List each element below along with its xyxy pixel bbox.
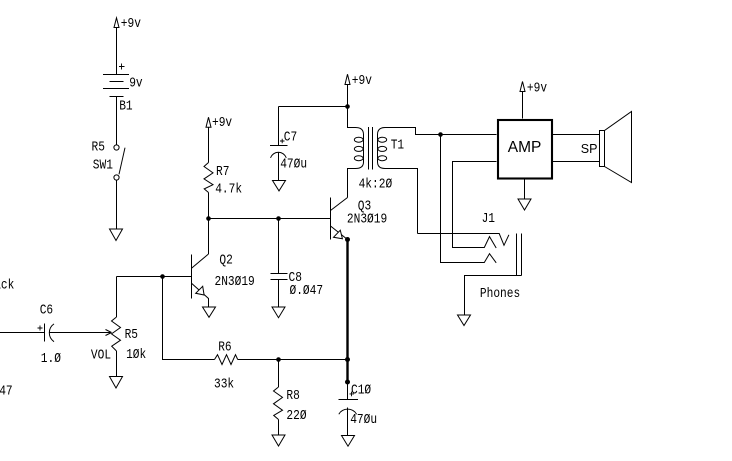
ground bbox=[110, 229, 123, 241]
svg-text:Jack: Jack bbox=[0, 276, 14, 293]
node junction R7/Q2 bbox=[206, 216, 211, 221]
ground bbox=[272, 307, 285, 318]
wire R6 to junctions bbox=[238, 359, 348, 361]
transistor Q3 bbox=[331, 169, 388, 240]
resistor R8 220 bbox=[272, 360, 307, 447]
svg-text:R6: R6 bbox=[218, 339, 231, 356]
svg-text:C6: C6 bbox=[40, 301, 53, 318]
svg-text:C1Ø: C1Ø bbox=[351, 381, 371, 398]
wire bbox=[116, 180, 118, 229]
jack J1 contact 1 bbox=[453, 162, 497, 249]
capacitor C6 bbox=[38, 301, 62, 366]
wire feedback down and right to R6 bbox=[163, 277, 215, 360]
svg-text:+9v: +9v bbox=[352, 72, 372, 89]
emitter arrow open bbox=[196, 286, 204, 295]
wire to C7 bbox=[279, 106, 348, 108]
svg-text:R5: R5 bbox=[92, 139, 105, 156]
transformer T1 primary bbox=[348, 107, 364, 198]
emitter arrow open bbox=[334, 230, 343, 239]
svg-text:+9v: +9v bbox=[212, 114, 232, 131]
svg-text:1Øk: 1Øk bbox=[126, 346, 146, 363]
capacitor C10 470u bbox=[339, 381, 378, 446]
speaker SP bbox=[581, 112, 632, 183]
svg-text:Ø.Ø47: Ø.Ø47 bbox=[290, 282, 324, 299]
capacitor C8 bbox=[271, 219, 324, 318]
node junction T1 top bbox=[345, 104, 350, 109]
svg-text:J1: J1 bbox=[482, 210, 495, 227]
svg-text:VOL: VOL bbox=[91, 346, 111, 363]
power +9v battery branch bbox=[103, 15, 143, 145]
wire input bbox=[0, 332, 45, 334]
node junction C8 bbox=[276, 216, 281, 221]
thick wire Q3 emitter down bbox=[346, 240, 348, 383]
svg-text:47Øu: 47Øu bbox=[280, 155, 307, 172]
svg-text:R8: R8 bbox=[286, 387, 299, 404]
+9v arrow (AMP) bbox=[520, 79, 547, 118]
resistor R7 4.7k bbox=[204, 163, 242, 219]
svg-text:B1: B1 bbox=[119, 98, 132, 115]
capacitor C7 470u bbox=[270, 107, 307, 191]
svg-text:1.Ø: 1.Ø bbox=[41, 350, 61, 367]
+9v arrow (battery) bbox=[114, 18, 119, 28]
ground bbox=[272, 435, 285, 446]
svg-text:9v: 9v bbox=[129, 74, 143, 91]
svg-text:+9v: +9v bbox=[121, 15, 141, 32]
svg-text:C7: C7 bbox=[284, 128, 297, 145]
wire base line to Q3 bbox=[209, 218, 331, 220]
jack J1 plug bbox=[517, 234, 522, 276]
jack J1 contact 2 bbox=[441, 135, 497, 263]
jack J1 tip line bbox=[418, 234, 509, 246]
AMP ground bbox=[524, 179, 526, 199]
ground (jack) bbox=[458, 315, 471, 326]
transistor Q2 bbox=[192, 219, 255, 318]
svg-text:Ø47: Ø47 bbox=[0, 382, 13, 399]
wire bbox=[116, 28, 118, 75]
node junction AMP input bbox=[438, 132, 443, 137]
switch SW1 bbox=[92, 139, 126, 241]
node Q3 emitter bbox=[345, 237, 350, 242]
svg-text:R5: R5 bbox=[125, 326, 138, 343]
svg-text:22Ø: 22Ø bbox=[286, 407, 306, 424]
ground bbox=[273, 181, 286, 191]
wires AMP to speaker bbox=[553, 135, 599, 162]
ground bbox=[203, 307, 216, 317]
svg-text:AMP: AMP bbox=[508, 139, 542, 156]
+9v arrow (R7) bbox=[206, 114, 232, 162]
svg-text:SW1: SW1 bbox=[93, 156, 113, 173]
node junction R8 bbox=[276, 357, 281, 362]
svg-text:+9v: +9v bbox=[527, 79, 547, 96]
potentiometer R5 10k bbox=[91, 277, 146, 389]
node C10 top bbox=[345, 380, 350, 385]
svg-text:Phones: Phones bbox=[480, 285, 520, 302]
svg-text:2N3Ø19: 2N3Ø19 bbox=[347, 211, 387, 228]
svg-text:Q2: Q2 bbox=[219, 251, 232, 268]
+9v arrow (T1) bbox=[345, 72, 372, 107]
svg-text:4k:2Ø: 4k:2Ø bbox=[359, 175, 393, 192]
svg-text:R7: R7 bbox=[216, 163, 229, 180]
wire to pot wiper bbox=[50, 332, 112, 334]
jack J1 sleeve to ground bbox=[465, 276, 522, 316]
battery B1 bbox=[103, 75, 129, 97]
wiper arrowhead bbox=[106, 330, 112, 336]
node junction thick/R6 bbox=[345, 357, 350, 362]
AMP block bbox=[498, 120, 552, 179]
wire pot top to Q2 base bbox=[117, 276, 192, 278]
svg-text:4.7k: 4.7k bbox=[215, 180, 242, 197]
svg-text:T1: T1 bbox=[391, 136, 404, 153]
node junction bbox=[160, 274, 165, 279]
ground bbox=[342, 436, 355, 447]
ground bbox=[110, 377, 123, 389]
resistor R6 33k bbox=[214, 339, 238, 392]
svg-text:SP: SP bbox=[581, 142, 598, 156]
svg-text:33k: 33k bbox=[214, 375, 234, 392]
transformer T1 secondary bbox=[359, 128, 497, 234]
svg-text:2N3Ø19: 2N3Ø19 bbox=[215, 273, 255, 290]
transformer T1 core bbox=[369, 127, 373, 170]
wire bbox=[116, 97, 118, 146]
svg-text:47Øu: 47Øu bbox=[350, 411, 377, 428]
